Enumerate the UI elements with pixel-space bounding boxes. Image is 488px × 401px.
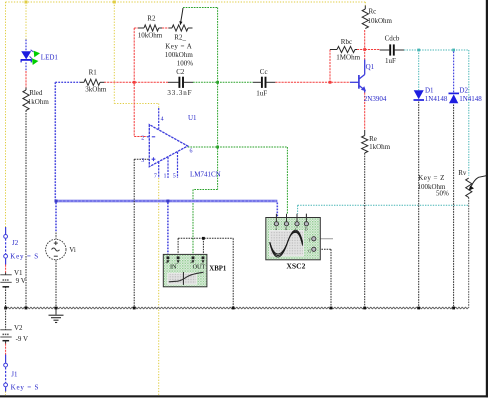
svg-text:_: _: [175, 260, 179, 265]
svg-text:G: G: [308, 249, 311, 253]
svg-text:2: 2: [141, 135, 144, 141]
svg-text:33.3nF: 33.3nF: [167, 89, 192, 97]
svg-text:10kOhm: 10kOhm: [138, 32, 163, 40]
svg-text:J2: J2: [12, 239, 19, 247]
svg-text:Re: Re: [369, 135, 377, 143]
svg-text:Key = A: Key = A: [165, 42, 192, 50]
svg-text:100%: 100%: [177, 60, 194, 68]
svg-text:1N4148: 1N4148: [459, 95, 482, 103]
svg-text:C2: C2: [176, 68, 185, 76]
svg-text:U1: U1: [188, 114, 197, 122]
svg-text:1: 1: [164, 173, 167, 179]
svg-text:4: 4: [161, 116, 164, 122]
svg-text:LM741CN: LM741CN: [190, 170, 221, 178]
svg-text:R2: R2: [147, 15, 156, 23]
svg-text:5: 5: [173, 173, 176, 179]
svg-text:3: 3: [141, 158, 144, 164]
svg-text:D1: D1: [425, 87, 434, 95]
svg-text:Q1: Q1: [366, 63, 375, 71]
svg-text:2N3904: 2N3904: [364, 95, 387, 103]
svg-text:-9 V: -9 V: [16, 335, 29, 343]
svg-text:Rc: Rc: [369, 8, 377, 16]
svg-text:1MOhm: 1MOhm: [336, 54, 360, 62]
svg-text:10kOhm: 10kOhm: [368, 17, 393, 25]
svg-text:Rv: Rv: [458, 169, 467, 177]
svg-text:9 V: 9 V: [16, 277, 26, 285]
svg-text:D2: D2: [459, 87, 468, 95]
svg-text:1uF: 1uF: [256, 89, 267, 97]
svg-text:XSC2: XSC2: [286, 262, 305, 271]
svg-text:Rbc: Rbc: [341, 38, 352, 46]
svg-text:7: 7: [154, 173, 157, 179]
svg-text:LED1: LED1: [41, 54, 59, 62]
svg-text:+: +: [190, 261, 193, 266]
svg-text:3kOhm: 3kOhm: [85, 86, 107, 94]
svg-text:Rled: Rled: [29, 89, 43, 97]
svg-text:_: _: [200, 260, 204, 265]
svg-text:V2: V2: [14, 324, 23, 332]
svg-text:R1: R1: [89, 68, 98, 76]
svg-text:1N4148: 1N4148: [425, 95, 448, 103]
svg-text:Key = S: Key = S: [11, 384, 40, 392]
svg-text:1uF: 1uF: [385, 57, 396, 65]
svg-text:V1: V1: [14, 269, 23, 277]
svg-text:100kOhm: 100kOhm: [165, 51, 194, 59]
svg-text:OUT: OUT: [193, 263, 206, 270]
svg-text:1kOhm: 1kOhm: [28, 98, 50, 106]
svg-text:Cc: Cc: [260, 68, 268, 76]
svg-text:D: D: [305, 228, 308, 232]
svg-text:1kOhm: 1kOhm: [369, 143, 391, 151]
svg-text:Cdcb: Cdcb: [385, 34, 400, 42]
svg-text:R2_: R2_: [174, 34, 186, 42]
svg-text:J1: J1: [11, 370, 18, 378]
svg-text:+: +: [165, 261, 168, 266]
svg-text:Key = Z: Key = Z: [418, 174, 445, 182]
svg-text:50%: 50%: [436, 189, 449, 197]
svg-text:Key = S: Key = S: [10, 252, 39, 260]
svg-text:XBP1: XBP1: [209, 265, 227, 272]
svg-text:Vi: Vi: [69, 246, 76, 254]
svg-text:6: 6: [190, 148, 193, 154]
